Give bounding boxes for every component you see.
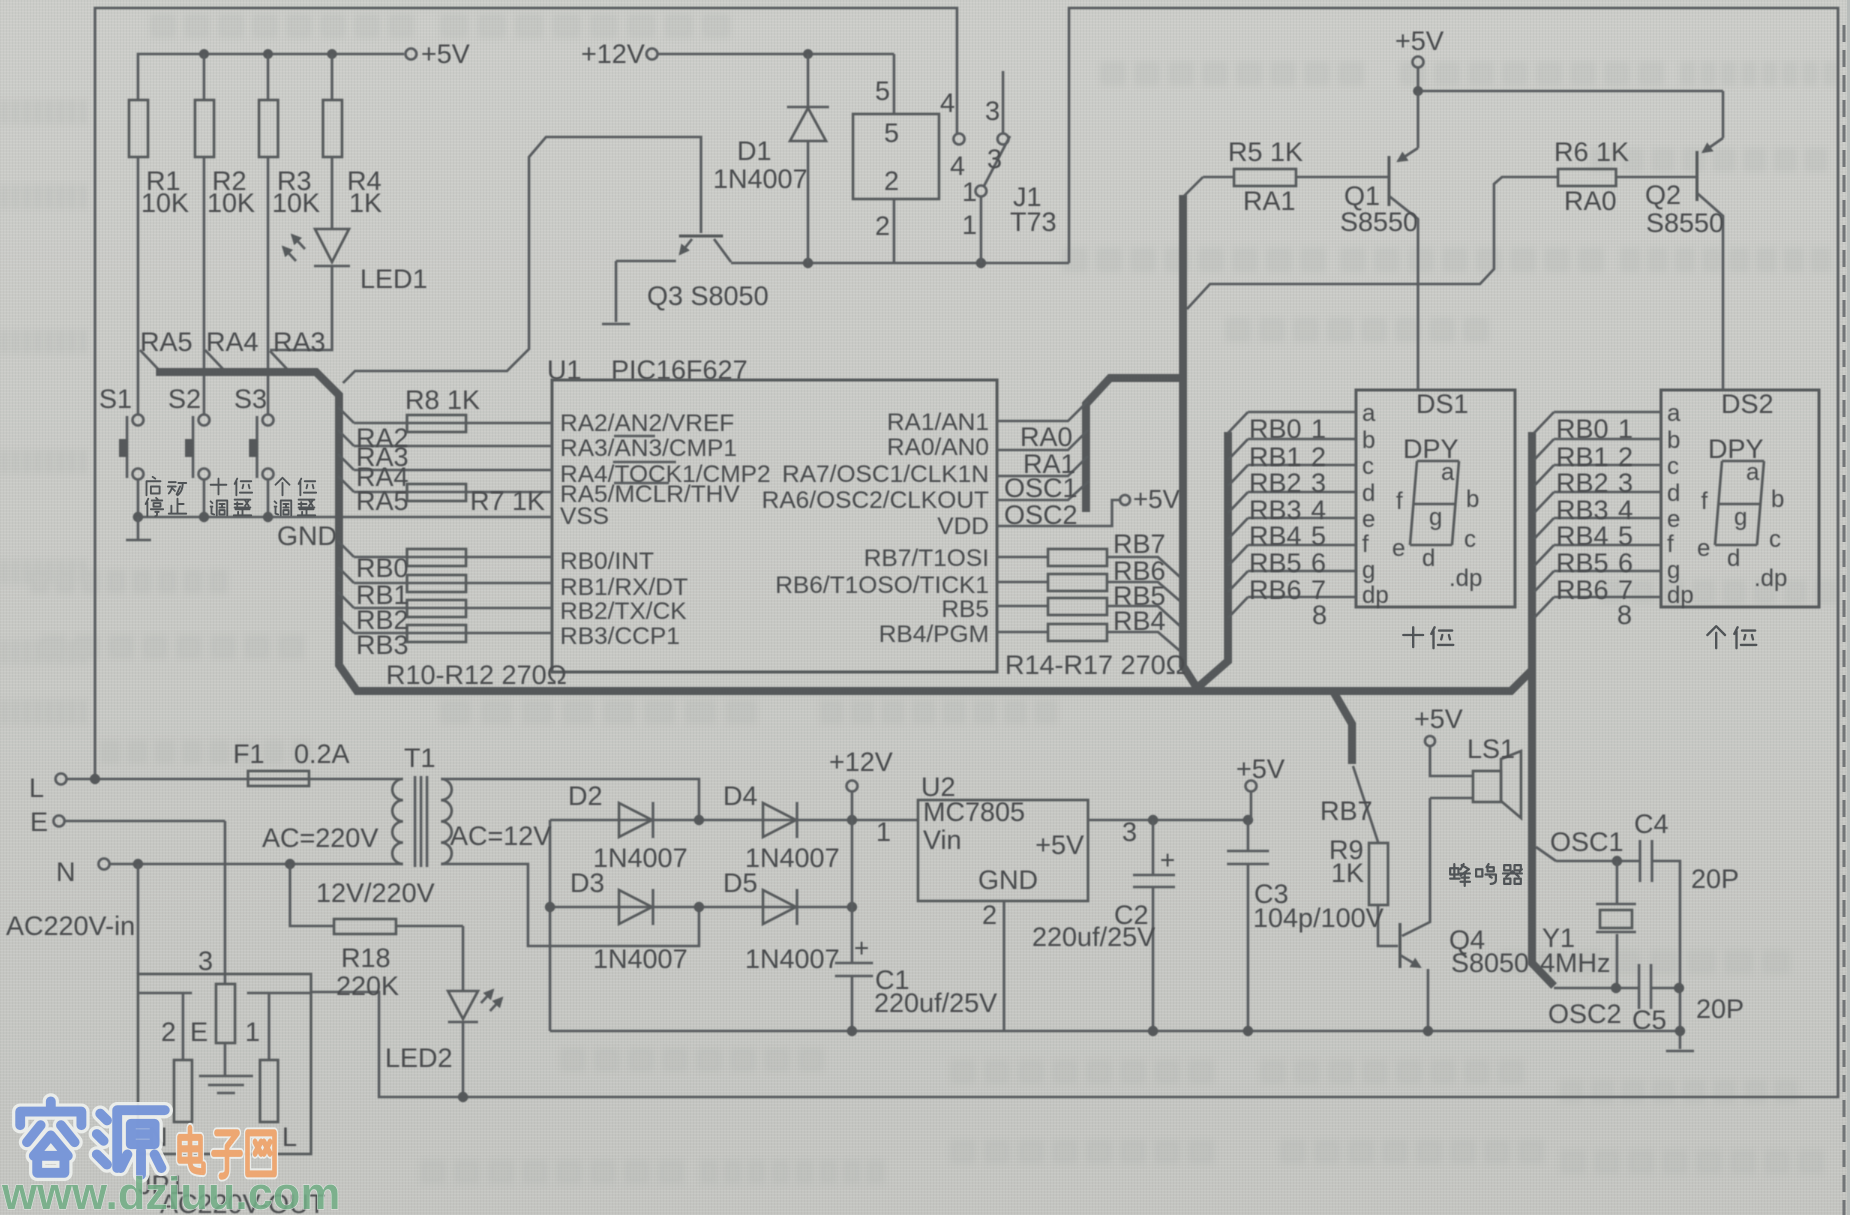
svg-text:RA0/AN0: RA0/AN0 xyxy=(887,434,989,461)
svg-text:3: 3 xyxy=(1311,468,1326,498)
svg-text:R8 1K: R8 1K xyxy=(405,385,480,415)
svg-text:6: 6 xyxy=(1618,548,1633,578)
svg-text:12V/220V: 12V/220V xyxy=(316,878,435,908)
svg-text:RA1: RA1 xyxy=(1243,186,1296,216)
svg-text:T1: T1 xyxy=(404,743,436,773)
svg-text:RB6/T1OSO/TICK1: RB6/T1OSO/TICK1 xyxy=(775,572,989,599)
svg-text:g: g xyxy=(1362,557,1375,584)
svg-text:S3: S3 xyxy=(234,384,267,414)
svg-text:RB0: RB0 xyxy=(356,553,409,583)
svg-text:RB2: RB2 xyxy=(1556,468,1609,498)
svg-text:C5: C5 xyxy=(1632,1005,1667,1035)
svg-text:b: b xyxy=(1466,486,1479,513)
svg-text:DS2: DS2 xyxy=(1721,389,1774,419)
svg-text:S8050: S8050 xyxy=(1451,948,1529,978)
svg-text:LED1: LED1 xyxy=(360,264,428,294)
svg-text:c: c xyxy=(1769,526,1781,553)
svg-text:4: 4 xyxy=(940,88,955,118)
svg-text:D4: D4 xyxy=(723,781,758,811)
svg-text:U1: U1 xyxy=(547,355,582,385)
svg-text:1: 1 xyxy=(245,1017,260,1047)
svg-text:+: + xyxy=(1160,845,1175,875)
svg-text:AC220V-in: AC220V-in xyxy=(6,911,135,941)
svg-text:RB4/PGM: RB4/PGM xyxy=(879,621,989,648)
svg-text:F1: F1 xyxy=(233,739,265,769)
svg-text:RA7/OSC1/CLK1N: RA7/OSC1/CLK1N xyxy=(782,461,989,488)
svg-text:+5V: +5V xyxy=(1133,484,1181,514)
svg-text:R14-R17 270Ω: R14-R17 270Ω xyxy=(1005,650,1186,680)
svg-text:d: d xyxy=(1362,480,1375,507)
svg-text:OSC2: OSC2 xyxy=(1548,999,1622,1029)
svg-text:+12V: +12V xyxy=(829,747,893,777)
svg-text:.dp: .dp xyxy=(1449,565,1482,592)
svg-text:GND: GND xyxy=(277,521,337,551)
svg-text:6: 6 xyxy=(1311,548,1326,578)
svg-text:RB0: RB0 xyxy=(1556,414,1609,444)
svg-text:dp: dp xyxy=(1667,582,1694,609)
svg-text:+5V: +5V xyxy=(1395,26,1444,56)
svg-text:T73: T73 xyxy=(1010,207,1057,237)
svg-text:10K: 10K xyxy=(141,188,189,218)
svg-text:e: e xyxy=(1362,506,1375,533)
svg-text:RB7/T1OSI: RB7/T1OSI xyxy=(864,545,989,572)
svg-text:LED2: LED2 xyxy=(385,1043,453,1073)
svg-text:2: 2 xyxy=(161,1017,176,1047)
svg-text:g: g xyxy=(1734,504,1747,531)
svg-text:c: c xyxy=(1464,526,1476,553)
svg-text:220uf/25V: 220uf/25V xyxy=(874,988,997,1018)
svg-text:RB0/INT: RB0/INT xyxy=(560,548,654,575)
svg-text:1N4007: 1N4007 xyxy=(593,843,688,873)
svg-text:RA0: RA0 xyxy=(1564,186,1617,216)
svg-text:E: E xyxy=(190,1017,208,1047)
svg-text:dp: dp xyxy=(1362,582,1389,609)
svg-text:+: + xyxy=(854,933,869,963)
svg-text:RB4: RB4 xyxy=(1113,606,1166,636)
svg-text:D2: D2 xyxy=(568,781,603,811)
svg-text:S2: S2 xyxy=(168,384,201,414)
svg-text:g: g xyxy=(1667,557,1680,584)
svg-text:1: 1 xyxy=(876,817,891,847)
svg-text:Q3 S8050: Q3 S8050 xyxy=(647,281,769,311)
svg-text:3: 3 xyxy=(1618,468,1633,498)
svg-text:www.dziuu.com: www.dziuu.com xyxy=(1,1168,340,1215)
svg-text:OSC1: OSC1 xyxy=(1004,473,1078,503)
svg-text:+5V: +5V xyxy=(1236,754,1285,784)
svg-text:RA5: RA5 xyxy=(356,486,409,516)
svg-text:S1: S1 xyxy=(99,384,132,414)
svg-text:RA1/AN1: RA1/AN1 xyxy=(887,409,989,436)
svg-text:f: f xyxy=(1701,488,1708,515)
svg-text:1N4007: 1N4007 xyxy=(745,944,840,974)
svg-text:f: f xyxy=(1667,531,1674,558)
svg-text:RA3: RA3 xyxy=(273,327,326,357)
svg-text:DS1: DS1 xyxy=(1416,389,1469,419)
svg-text:R10-R12 270Ω: R10-R12 270Ω xyxy=(386,660,567,690)
svg-text:1: 1 xyxy=(1618,414,1633,444)
svg-text:8: 8 xyxy=(1312,600,1327,630)
svg-text:+5V: +5V xyxy=(421,39,470,69)
svg-text:8: 8 xyxy=(1617,600,1632,630)
svg-text:2: 2 xyxy=(875,211,890,241)
svg-text:20P: 20P xyxy=(1691,864,1739,894)
svg-text:RA3/AN3/CMP1: RA3/AN3/CMP1 xyxy=(560,435,737,462)
svg-text:1: 1 xyxy=(962,210,977,240)
svg-text:f: f xyxy=(1362,531,1369,558)
svg-text:1N4007: 1N4007 xyxy=(713,164,808,194)
svg-text:RB2: RB2 xyxy=(1249,468,1302,498)
svg-text:RA0: RA0 xyxy=(1020,422,1073,452)
svg-text:a: a xyxy=(1667,400,1681,427)
svg-text:L: L xyxy=(29,773,44,803)
svg-text:LS1: LS1 xyxy=(1467,734,1515,764)
svg-text:3: 3 xyxy=(985,96,1000,126)
svg-text:AC=220V: AC=220V xyxy=(262,823,378,853)
svg-text:C4: C4 xyxy=(1634,809,1669,839)
svg-text:b: b xyxy=(1362,427,1375,454)
svg-text:d: d xyxy=(1727,545,1740,572)
svg-text:R18: R18 xyxy=(341,943,391,973)
svg-text:10K: 10K xyxy=(207,188,255,218)
svg-text:R6 1K: R6 1K xyxy=(1554,137,1629,167)
svg-text:S8550: S8550 xyxy=(1646,208,1724,238)
svg-text:e: e xyxy=(1697,535,1710,562)
svg-text:10K: 10K xyxy=(272,188,320,218)
svg-text:N: N xyxy=(56,857,76,887)
svg-text:3: 3 xyxy=(987,144,1002,174)
svg-text:PIC16F627: PIC16F627 xyxy=(611,355,748,385)
svg-text:+5V: +5V xyxy=(1035,830,1084,860)
svg-text:D1: D1 xyxy=(737,136,772,166)
svg-text:5: 5 xyxy=(1618,521,1633,551)
svg-text:5: 5 xyxy=(884,118,899,148)
svg-text:VDD: VDD xyxy=(937,513,989,540)
svg-text:2: 2 xyxy=(884,166,899,196)
svg-text:+12V: +12V xyxy=(581,39,645,69)
svg-text:0.2A: 0.2A xyxy=(294,739,350,769)
svg-text:RA4: RA4 xyxy=(206,327,259,357)
svg-text:RB6: RB6 xyxy=(1556,575,1609,605)
svg-text:RB5: RB5 xyxy=(1556,548,1609,578)
svg-text:OSC1: OSC1 xyxy=(1550,827,1624,857)
svg-text:a: a xyxy=(1746,459,1760,486)
svg-text:R7 1K: R7 1K xyxy=(470,486,545,516)
svg-text:RA5: RA5 xyxy=(140,327,193,357)
svg-text:RB6: RB6 xyxy=(1249,575,1302,605)
svg-text:RB1/RX/DT: RB1/RX/DT xyxy=(560,574,688,601)
svg-text:RB2/TX/CK: RB2/TX/CK xyxy=(560,598,687,625)
svg-text:5: 5 xyxy=(875,76,890,106)
svg-text:VSS: VSS xyxy=(560,503,609,530)
svg-text:Q2: Q2 xyxy=(1645,180,1681,210)
svg-text:Vin: Vin xyxy=(923,825,962,855)
svg-text:L: L xyxy=(282,1122,297,1152)
svg-text:RB3: RB3 xyxy=(356,630,409,660)
svg-text:b: b xyxy=(1667,427,1680,454)
svg-text:d: d xyxy=(1422,545,1435,572)
svg-text:3: 3 xyxy=(198,946,213,976)
svg-text:RB5: RB5 xyxy=(1249,548,1302,578)
svg-text:RB3/CCP1: RB3/CCP1 xyxy=(560,623,680,650)
svg-text:E: E xyxy=(30,807,48,837)
svg-text:220K: 220K xyxy=(336,971,399,1001)
svg-text:1N4007: 1N4007 xyxy=(745,843,840,873)
svg-text:1: 1 xyxy=(962,177,977,207)
svg-text:RB0: RB0 xyxy=(1249,414,1302,444)
svg-text:e: e xyxy=(1667,506,1680,533)
svg-text:RB5: RB5 xyxy=(941,596,989,623)
svg-text:AC=12V: AC=12V xyxy=(450,821,551,851)
svg-text:RB4: RB4 xyxy=(1249,521,1302,551)
svg-text:.dp: .dp xyxy=(1754,565,1787,592)
svg-text:+5V: +5V xyxy=(1414,704,1463,734)
svg-text:e: e xyxy=(1392,535,1405,562)
svg-text:104p/100V: 104p/100V xyxy=(1253,903,1384,933)
svg-text:g: g xyxy=(1429,504,1442,531)
svg-text:20P: 20P xyxy=(1696,994,1744,1024)
svg-text:5: 5 xyxy=(1311,521,1326,551)
svg-text:f: f xyxy=(1396,488,1403,515)
svg-text:S8550: S8550 xyxy=(1340,207,1418,237)
svg-text:RB4: RB4 xyxy=(1556,521,1609,551)
svg-text:RA2/AN2/VREF: RA2/AN2/VREF xyxy=(560,410,734,437)
svg-text:GND: GND xyxy=(978,865,1038,895)
svg-text:RB7: RB7 xyxy=(1113,529,1166,559)
svg-text:b: b xyxy=(1771,486,1784,513)
svg-text:1K: 1K xyxy=(1331,858,1364,888)
svg-text:c: c xyxy=(1362,453,1374,480)
svg-text:4MHz: 4MHz xyxy=(1540,948,1611,978)
svg-text:220uf/25V: 220uf/25V xyxy=(1032,922,1155,952)
svg-text:2: 2 xyxy=(982,900,997,930)
svg-text:3: 3 xyxy=(1122,817,1137,847)
svg-text:1: 1 xyxy=(1311,414,1326,444)
svg-text:R5 1K: R5 1K xyxy=(1228,137,1303,167)
svg-text:d: d xyxy=(1667,480,1680,507)
svg-text:RB7: RB7 xyxy=(1320,796,1373,826)
svg-text:1K: 1K xyxy=(349,188,382,218)
svg-text:1N4007: 1N4007 xyxy=(593,944,688,974)
svg-text:a: a xyxy=(1441,459,1455,486)
svg-text:a: a xyxy=(1362,400,1376,427)
svg-text:MC7805: MC7805 xyxy=(923,797,1025,827)
svg-text:c: c xyxy=(1667,453,1679,480)
svg-text:OSC2: OSC2 xyxy=(1004,500,1078,530)
svg-text:RA6/OSC2/CLKOUT: RA6/OSC2/CLKOUT xyxy=(762,487,989,514)
